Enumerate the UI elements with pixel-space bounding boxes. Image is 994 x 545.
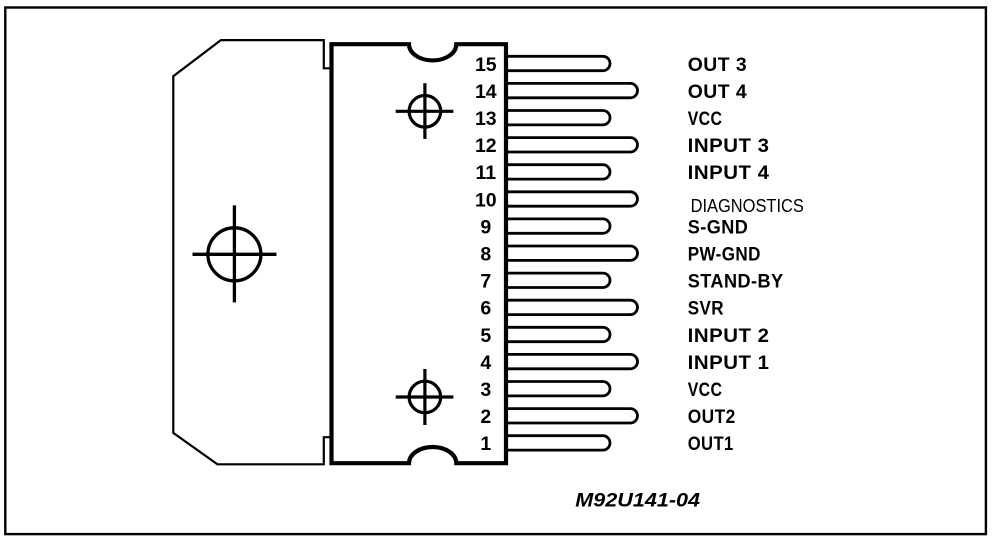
svg-text:11: 11 [475,162,496,184]
svg-text:STAND-BY: STAND-BY [688,271,784,293]
svg-text:6: 6 [480,298,491,320]
svg-text:PW-GND: PW-GND [688,244,761,266]
svg-text:3: 3 [480,379,491,401]
svg-text:5: 5 [480,325,491,347]
svg-text:INPUT 1: INPUT 1 [688,352,770,374]
svg-text:15: 15 [475,54,497,76]
svg-text:13: 13 [475,108,497,130]
svg-text:8: 8 [480,244,491,266]
svg-text:10: 10 [475,189,497,211]
svg-text:OUT1: OUT1 [688,433,734,455]
svg-text:OUT 3: OUT 3 [688,54,748,76]
svg-text:M92U141-04: M92U141-04 [575,490,700,511]
svg-text:OUT 4: OUT 4 [688,81,748,103]
svg-text:S-GND: S-GND [688,216,749,238]
svg-text:INPUT 2: INPUT 2 [688,325,770,347]
svg-text:VCC: VCC [688,379,723,401]
svg-text:14: 14 [475,81,497,103]
svg-text:1: 1 [480,433,491,455]
svg-text:12: 12 [475,135,497,157]
svg-text:OUT2: OUT2 [688,406,736,428]
svg-text:INPUT 3: INPUT 3 [688,135,770,157]
svg-text:INPUT 4: INPUT 4 [688,162,770,184]
svg-text:SVR: SVR [688,298,724,320]
svg-text:2: 2 [480,406,491,428]
svg-text:VCC: VCC [688,108,723,130]
svg-text:DIAGNOSTICS: DIAGNOSTICS [691,196,804,216]
svg-text:9: 9 [480,216,491,238]
svg-text:4: 4 [480,352,491,374]
svg-text:7: 7 [480,271,491,293]
